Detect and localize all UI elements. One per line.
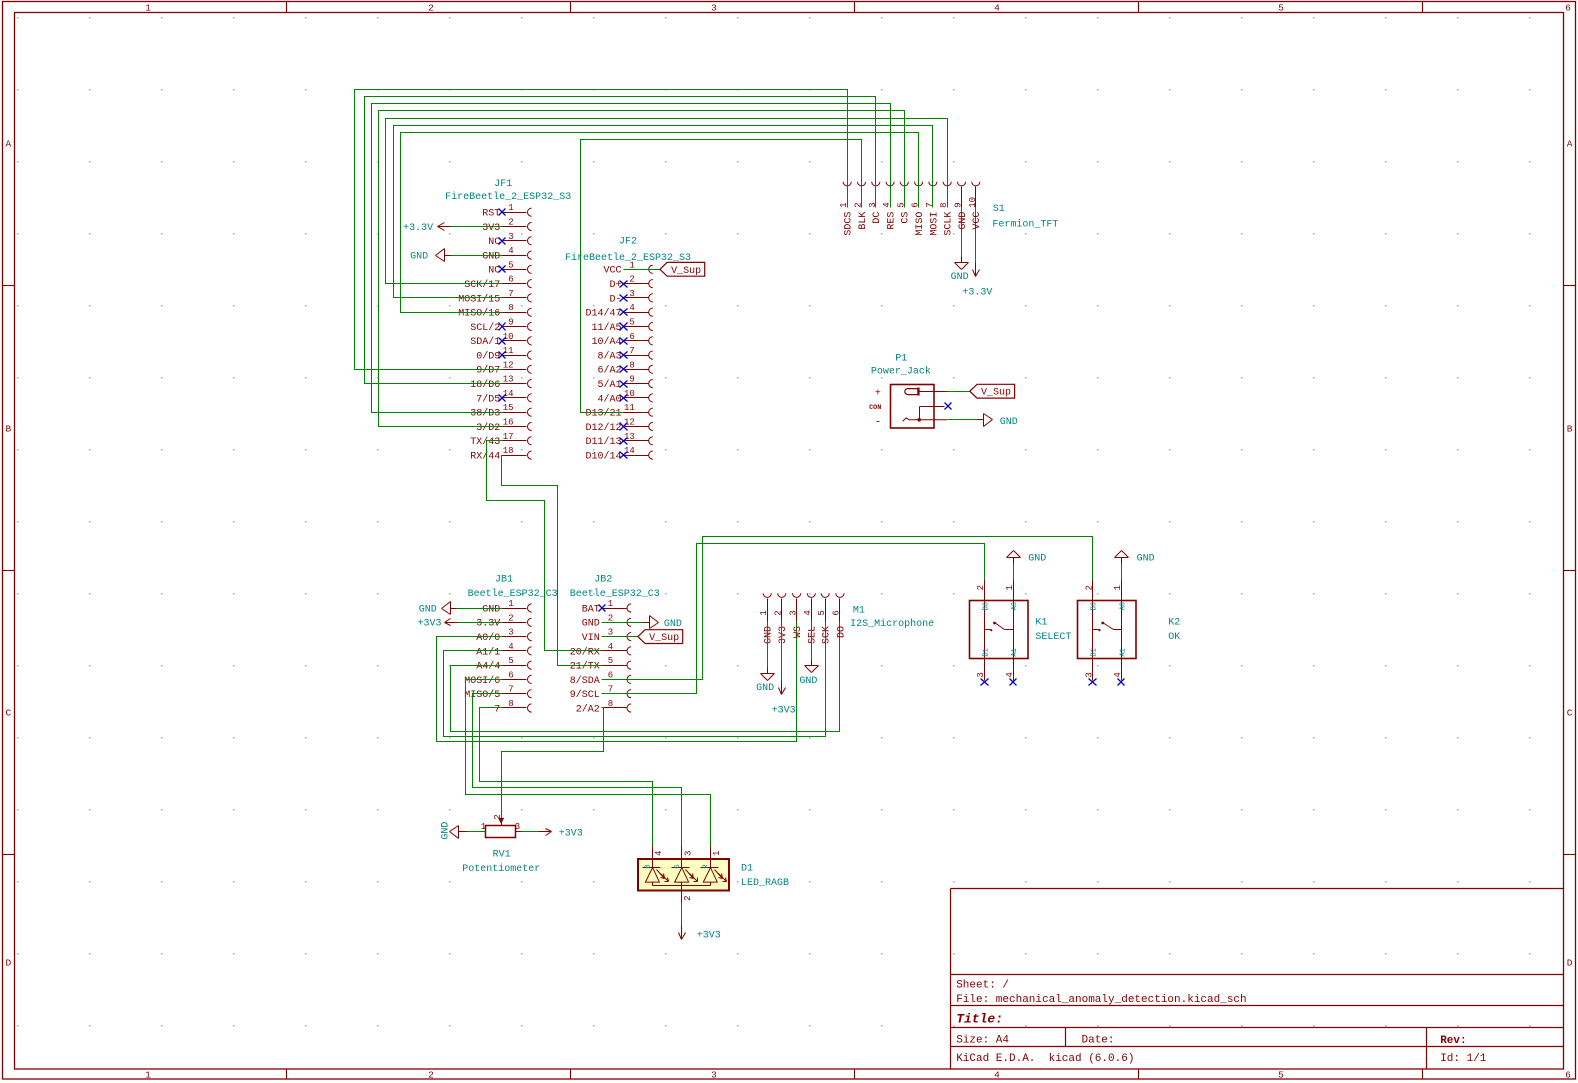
- svg-text:38/D3: 38/D3: [470, 408, 500, 420]
- wire JF1.15 to S1.4: [372, 104, 891, 413]
- svg-text:SCLK: SCLK: [944, 212, 955, 236]
- svg-text:2: 2: [683, 895, 693, 900]
- reference RV1: [493, 850, 511, 861]
- svg-text:OK: OK: [1168, 632, 1180, 643]
- power +3.3V (S1 pin10): [962, 263, 992, 299]
- svg-text:VCC: VCC: [972, 212, 983, 230]
- svg-text:GND: GND: [582, 619, 600, 630]
- svg-text:MISO: MISO: [915, 212, 926, 236]
- svg-text:B: B: [645, 864, 653, 868]
- svg-text:1: 1: [145, 1070, 151, 1081]
- connector S1 Fermion_TFT: [843, 182, 980, 208]
- svg-text:2: 2: [508, 218, 513, 228]
- svg-text:2: 2: [854, 202, 864, 207]
- value Beetle_ESP32_C3 (JB1): [468, 588, 558, 600]
- svg-text:3: 3: [508, 628, 513, 638]
- svg-text:6: 6: [508, 670, 513, 680]
- svg-text:MOSI: MOSI: [929, 212, 940, 236]
- title block: [951, 889, 1564, 1070]
- svg-text:JF2: JF2: [619, 237, 637, 248]
- ground (K1 pin1): [1007, 551, 1047, 565]
- svg-text:10: 10: [624, 389, 635, 399]
- svg-text:2: 2: [428, 1070, 434, 1081]
- reference S1: [993, 204, 1005, 215]
- ground (M1 pin1): [756, 668, 774, 694]
- svg-text:7: 7: [629, 346, 634, 356]
- svg-text:5: 5: [508, 656, 513, 666]
- potentiometer RV1: [459, 814, 522, 837]
- wire JB1.7 to D1.3 (G): [473, 694, 682, 847]
- svg-text:+3.3V: +3.3V: [962, 288, 992, 299]
- svg-text:NC: NC: [488, 266, 500, 277]
- svg-text:C: C: [1567, 707, 1573, 718]
- svg-text:RST: RST: [482, 209, 500, 220]
- svg-text:9: 9: [508, 318, 513, 328]
- svg-text:4: 4: [654, 851, 664, 856]
- svg-text:GND: GND: [756, 683, 774, 694]
- svg-text:3.3V: 3.3V: [476, 619, 500, 630]
- svg-text:D+: D+: [609, 280, 621, 291]
- value Beetle_ESP32_C3 (JB2): [570, 588, 660, 600]
- svg-text:D14/47: D14/47: [585, 308, 621, 320]
- svg-text:4: 4: [1113, 672, 1123, 677]
- svg-text:8/A3: 8/A3: [597, 351, 621, 363]
- wire K2.1 to GND: [1121, 564, 1123, 580]
- ground (JB1 pin1): [419, 602, 457, 616]
- svg-text:3: 3: [711, 3, 717, 14]
- svg-text:P1: P1: [895, 353, 907, 364]
- svg-text:GND: GND: [410, 251, 428, 262]
- wire JF1.12 to S1.1: [355, 90, 848, 370]
- svg-text:5: 5: [508, 260, 513, 270]
- wire JB1.2 to +3V3: [458, 622, 503, 624]
- wire JB2.7 to K1.2: [602, 544, 985, 694]
- no-connect JB2 pin1 BAT: [599, 605, 606, 612]
- pin numbers and names S1: [839, 197, 983, 236]
- ground (JB2 pin2): [643, 616, 682, 631]
- ground (S1 pin9): [951, 257, 969, 284]
- power +3V3 (D1 pin2): [679, 926, 721, 942]
- wire M1.1 to GND: [767, 622, 769, 668]
- svg-text:9: 9: [954, 202, 964, 207]
- svg-text:1: 1: [1005, 585, 1015, 590]
- svg-text:4/A0: 4/A0: [597, 393, 621, 405]
- connector P1 Power_Jack: [869, 385, 947, 429]
- wire RV1.1 to GND: [467, 831, 486, 833]
- wire M1.4 to GND: [811, 622, 813, 660]
- svg-text:3: 3: [976, 672, 986, 677]
- svg-text:D: D: [1567, 957, 1573, 968]
- ground (RV1 pin1): [440, 822, 464, 840]
- svg-text:0/D9: 0/D9: [476, 351, 500, 363]
- wire S1.10 to +3.3V: [975, 208, 977, 263]
- svg-text:B: B: [1567, 423, 1573, 434]
- wire P1.+ to V_Sup: [948, 391, 970, 393]
- svg-text:V_Sup: V_Sup: [981, 388, 1011, 399]
- wire JF1.13 to S1.3: [365, 97, 876, 384]
- svg-text:3V3: 3V3: [778, 626, 789, 644]
- svg-text:+3V3: +3V3: [772, 706, 796, 717]
- ground (M1 pin4): [799, 660, 818, 687]
- svg-text:A0: A0: [1120, 602, 1128, 610]
- svg-text:8: 8: [629, 360, 634, 370]
- wire RV1.3 to +3V3: [522, 831, 539, 833]
- svg-text:8: 8: [608, 699, 613, 709]
- value FireBeetle_2_ESP32_S3 (JF1): [445, 191, 571, 203]
- global label V_Sup (JB2): [638, 630, 683, 644]
- wire K1.1 to GND: [1013, 564, 1015, 580]
- svg-text:5: 5: [896, 202, 906, 207]
- svg-text:MISO/5: MISO/5: [464, 689, 500, 701]
- svg-text:18: 18: [503, 446, 514, 456]
- reference JB1: [495, 575, 513, 586]
- wire JB1.5 to M1.6 (DO): [451, 622, 840, 732]
- svg-text:KiCad E.D.A. kicad (6.0.6): KiCad E.D.A. kicad (6.0.6): [956, 1053, 1134, 1065]
- svg-text:4: 4: [882, 202, 892, 207]
- svg-text:SELECT: SELECT: [1035, 632, 1071, 643]
- ground (P1): [978, 414, 1018, 428]
- svg-text:6: 6: [832, 610, 842, 615]
- svg-text:4: 4: [994, 1070, 1000, 1081]
- svg-text:Fermion_TFT: Fermion_TFT: [992, 218, 1058, 230]
- value Fermion_TFT (S1): [992, 218, 1058, 230]
- no-connect K1 pin4: [1010, 679, 1017, 686]
- svg-text:CS: CS: [901, 212, 912, 224]
- svg-text:D-: D-: [609, 294, 621, 305]
- svg-text:SDCS: SDCS: [844, 212, 855, 236]
- svg-text:D12/12: D12/12: [585, 422, 621, 434]
- svg-text:GND: GND: [482, 604, 500, 615]
- svg-text:SCK/17: SCK/17: [464, 279, 500, 291]
- switch K1 SELECT: [970, 580, 1029, 681]
- reference K2: [1168, 618, 1180, 629]
- svg-text:1: 1: [839, 202, 849, 207]
- svg-text:D1: D1: [741, 863, 753, 874]
- svg-text:MOSI/6: MOSI/6: [464, 675, 500, 687]
- svg-text:A0: A0: [1011, 602, 1019, 610]
- svg-text:RX/44: RX/44: [470, 451, 500, 463]
- svg-text:B1: B1: [983, 648, 991, 656]
- wire JB2.6 to K2.2: [602, 537, 1093, 680]
- svg-text:A1: A1: [1120, 648, 1128, 656]
- svg-text:Potentiometer: Potentiometer: [462, 863, 540, 875]
- svg-text:12: 12: [624, 418, 635, 428]
- svg-text:BAT: BAT: [582, 604, 600, 615]
- svg-text:WS: WS: [793, 626, 804, 638]
- power +3.3V (JF1 pin2): [403, 223, 450, 234]
- svg-text:-: -: [875, 417, 882, 429]
- wire JB1.6 to D1.1 (R): [466, 680, 711, 847]
- svg-text:2: 2: [629, 275, 634, 285]
- svg-text:B: B: [6, 423, 12, 434]
- ground (K2 pin1): [1115, 551, 1155, 565]
- wire JB1.3 to M1.3 (WS): [437, 622, 797, 742]
- svg-text:3V3: 3V3: [482, 223, 500, 234]
- svg-text:5: 5: [1278, 1070, 1284, 1081]
- reference P1: [895, 353, 907, 364]
- svg-text:+3V3: +3V3: [417, 619, 441, 630]
- wire S1.9 to GND: [961, 208, 963, 257]
- value OK (K2): [1168, 632, 1180, 643]
- svg-text:DO: DO: [836, 626, 847, 638]
- svg-text:9/D7: 9/D7: [476, 365, 500, 377]
- svg-text:13: 13: [503, 375, 514, 385]
- svg-text:A: A: [1567, 138, 1573, 149]
- svg-text:File: mechanical_anomaly_detec: File: mechanical_anomaly_detection.kicad…: [956, 994, 1246, 1006]
- svg-text:11: 11: [624, 403, 635, 413]
- svg-text:5: 5: [608, 656, 613, 666]
- svg-text:5: 5: [629, 318, 634, 328]
- svg-text:6: 6: [1565, 1070, 1571, 1081]
- svg-text:D11/13: D11/13: [585, 436, 621, 448]
- svg-text:10: 10: [503, 332, 514, 342]
- svg-text:RV1: RV1: [493, 850, 511, 861]
- svg-text:1: 1: [145, 3, 151, 14]
- svg-text:2: 2: [608, 613, 613, 623]
- wire JB2.8 to RV1.2: [502, 708, 604, 818]
- svg-text:4: 4: [1005, 672, 1015, 677]
- svg-text:K1: K1: [1035, 618, 1047, 629]
- reference M1: [853, 606, 865, 617]
- svg-text:+: +: [875, 388, 881, 399]
- connector JF2 FireBeetle_2_ESP32_S3: [585, 260, 652, 462]
- svg-text:10: 10: [968, 197, 978, 208]
- svg-text:4: 4: [508, 642, 513, 652]
- svg-text:Sheet: /: Sheet: /: [956, 980, 1009, 992]
- svg-text:2: 2: [1084, 585, 1094, 590]
- wire JF1.17 (TX/43) to JB2.4: [487, 441, 602, 651]
- no-connect K2 pin3: [1089, 679, 1097, 686]
- svg-text:5: 5: [817, 610, 827, 615]
- svg-text:D13/21: D13/21: [585, 408, 621, 420]
- svg-text:DC: DC: [872, 212, 883, 224]
- wire JB1.4 to M1.5 (SCK): [444, 622, 826, 737]
- svg-text:8: 8: [508, 303, 513, 313]
- svg-text:LED_RAGB: LED_RAGB: [741, 878, 789, 889]
- svg-text:3: 3: [515, 822, 520, 832]
- svg-text:+3V3: +3V3: [559, 828, 583, 839]
- power +3V3 (M1 pin2): [772, 681, 796, 717]
- svg-text:BLK: BLK: [858, 212, 869, 230]
- svg-text:9: 9: [629, 375, 634, 385]
- wire JF1.7 to S1.7: [394, 126, 933, 298]
- svg-text:SCK: SCK: [822, 626, 833, 644]
- svg-text:7: 7: [508, 685, 513, 695]
- global label V_Sup (JF2): [660, 262, 705, 276]
- wire JF1.8 to S1.6: [401, 133, 919, 313]
- svg-text:I2S_Microphone: I2S_Microphone: [850, 618, 934, 630]
- svg-text:8: 8: [939, 202, 949, 207]
- svg-text:20/RX: 20/RX: [570, 646, 600, 658]
- svg-text:3: 3: [683, 851, 693, 856]
- svg-text:SCL/2: SCL/2: [470, 322, 500, 334]
- svg-text:VCC: VCC: [603, 266, 621, 277]
- svg-text:14: 14: [624, 446, 635, 456]
- svg-text:Rev:: Rev:: [1440, 1035, 1466, 1047]
- svg-text:Id: 1/1: Id: 1/1: [1440, 1053, 1487, 1065]
- svg-text:1: 1: [712, 851, 722, 856]
- svg-text:Power_Jack: Power_Jack: [871, 365, 931, 377]
- svg-text:GND: GND: [764, 626, 775, 644]
- svg-text:JF1: JF1: [494, 179, 512, 190]
- no-connect marks JF2: [620, 281, 628, 459]
- reference D1: [741, 863, 753, 874]
- value I2S_Microphone (M1): [850, 618, 934, 630]
- ground (JF1 pin4): [410, 249, 450, 263]
- svg-text:RES: RES: [887, 212, 898, 230]
- svg-text:GND: GND: [1137, 554, 1155, 565]
- svg-text:GND: GND: [1028, 554, 1046, 565]
- svg-text:FireBeetle_2_ESP32_S3: FireBeetle_2_ESP32_S3: [445, 191, 571, 203]
- svg-text:SEL: SEL: [808, 626, 819, 644]
- svg-text:3: 3: [629, 289, 634, 299]
- svg-text:D: D: [6, 957, 12, 968]
- svg-text:NC: NC: [488, 237, 500, 248]
- svg-text:3/D2: 3/D2: [476, 422, 500, 434]
- svg-text:2: 2: [508, 613, 513, 623]
- svg-text:11: 11: [503, 346, 514, 356]
- wire P1.- to GND: [948, 419, 978, 421]
- svg-text:5/A1: 5/A1: [597, 379, 621, 391]
- wire JF2.11 to S1.2: [581, 140, 862, 413]
- wire JF1.16 to S1.5: [379, 111, 905, 427]
- connector M1 I2S_Microphone: [759, 593, 847, 644]
- reference K1: [1035, 618, 1047, 629]
- svg-text:Beetle_ESP32_C3: Beetle_ESP32_C3: [570, 588, 660, 600]
- wire JB2.3 to V_Sup: [602, 636, 638, 638]
- power +3V3 (RV1 pin3): [539, 828, 583, 839]
- svg-text:GND: GND: [440, 822, 451, 840]
- svg-text:3: 3: [1084, 672, 1094, 677]
- svg-text:4: 4: [629, 303, 634, 313]
- svg-text:1: 1: [481, 822, 486, 832]
- wire JF1.18 (RX/44) to JB2.5: [502, 456, 602, 666]
- svg-text:1: 1: [759, 610, 769, 615]
- connector JB2 Beetle_ESP32_C3: [570, 599, 631, 715]
- no-connect K1 pin3: [981, 679, 989, 686]
- svg-text:1: 1: [1113, 585, 1123, 590]
- led D1 LED_RAGB: [638, 847, 729, 903]
- svg-text:B1: B1: [1091, 648, 1099, 656]
- svg-text:B0: B0: [1091, 602, 1099, 610]
- svg-text:17: 17: [503, 432, 514, 442]
- svg-text:9/SCL: 9/SCL: [570, 689, 600, 701]
- reference JB2: [594, 575, 612, 586]
- svg-text:14: 14: [503, 389, 514, 399]
- svg-text:16: 16: [503, 418, 514, 428]
- svg-text:21/TX: 21/TX: [570, 661, 600, 673]
- svg-text:6: 6: [1565, 3, 1571, 14]
- svg-text:V_Sup: V_Sup: [649, 633, 679, 644]
- reference JF2: [619, 237, 637, 248]
- wire JF1.2 to +3.3V: [451, 226, 503, 228]
- wire D1.2 to +3V3: [681, 903, 683, 926]
- value FireBeetle_2_ESP32_S3 (JF2): [565, 252, 691, 264]
- svg-text:A4/4: A4/4: [476, 661, 500, 673]
- svg-text:8/SDA: 8/SDA: [570, 675, 600, 687]
- svg-text:3: 3: [788, 610, 798, 615]
- svg-text:VIN: VIN: [582, 633, 600, 644]
- svg-text:SDA/1: SDA/1: [470, 336, 500, 348]
- svg-text:4: 4: [608, 642, 613, 652]
- svg-text:3: 3: [711, 1070, 717, 1081]
- svg-text:10/A4: 10/A4: [591, 336, 621, 348]
- connector JF1 FireBeetle_2_ESP32_S3: [458, 203, 531, 462]
- svg-text:V_Sup: V_Sup: [671, 266, 701, 277]
- svg-text:GND: GND: [799, 676, 817, 687]
- svg-text:JB1: JB1: [495, 575, 513, 586]
- svg-text:G: G: [674, 864, 682, 868]
- svg-text:CON: CON: [869, 404, 881, 412]
- svg-text:3: 3: [868, 202, 878, 207]
- value Power_Jack (P1): [871, 365, 931, 377]
- svg-text:2: 2: [428, 3, 434, 14]
- svg-text:7: 7: [508, 289, 513, 299]
- connector JB1 Beetle_ESP32_C3: [464, 599, 531, 715]
- wire JF1.6 to S1.8: [386, 119, 948, 284]
- svg-text:6: 6: [911, 202, 921, 207]
- svg-text:K2: K2: [1168, 618, 1180, 629]
- svg-text:B0: B0: [983, 602, 991, 610]
- svg-text:13: 13: [624, 432, 635, 442]
- svg-text:5: 5: [1278, 3, 1284, 14]
- svg-text:D10/14: D10/14: [585, 451, 621, 463]
- svg-text:15: 15: [503, 403, 514, 413]
- svg-text:GND: GND: [951, 272, 969, 283]
- svg-text:7: 7: [494, 704, 500, 715]
- switch K2 OK: [1078, 580, 1137, 681]
- svg-text:6: 6: [608, 670, 613, 680]
- value LED_RAGB (D1): [741, 878, 789, 889]
- svg-text:C: C: [6, 707, 12, 718]
- svg-text:2: 2: [976, 585, 986, 590]
- svg-text:2: 2: [774, 610, 784, 615]
- svg-text:11/A5: 11/A5: [591, 322, 621, 334]
- svg-text:8: 8: [508, 699, 513, 709]
- svg-text:4: 4: [994, 3, 1000, 14]
- wire JB1.8 to D1.4 (B): [480, 708, 653, 847]
- svg-text:Title:: Title:: [956, 1012, 1003, 1027]
- no-connect marks JF1: [499, 209, 506, 402]
- svg-text:TX/43: TX/43: [470, 436, 500, 448]
- svg-text:M1: M1: [853, 606, 865, 617]
- svg-text:GND: GND: [1000, 417, 1018, 428]
- no-connect P1 middle pin: [945, 403, 952, 410]
- power +3V3 (JB1 pin2): [417, 619, 457, 630]
- svg-text:18/D6: 18/D6: [470, 379, 500, 391]
- svg-text:2/A2: 2/A2: [576, 703, 600, 715]
- value Potentiometer (RV1): [462, 863, 540, 875]
- svg-text:+3V3: +3V3: [697, 930, 721, 941]
- svg-text:1: 1: [508, 599, 513, 609]
- svg-text:GND: GND: [482, 252, 500, 263]
- svg-text:Size: A4: Size: A4: [956, 1035, 1009, 1047]
- svg-text:12: 12: [503, 360, 514, 370]
- svg-text:4: 4: [508, 246, 513, 256]
- wire JB1.1 to GND: [457, 608, 503, 610]
- svg-text:GND: GND: [664, 619, 682, 630]
- svg-text:MOSI/15: MOSI/15: [458, 293, 500, 305]
- svg-text:6: 6: [629, 332, 634, 342]
- svg-text:6/A2: 6/A2: [597, 365, 621, 377]
- svg-text:Date:: Date:: [1082, 1035, 1115, 1047]
- wire JB2.2 to GND: [602, 622, 643, 624]
- wire M1.2 to +3V3: [781, 622, 783, 681]
- wire JF1.4 to GND: [451, 255, 503, 257]
- svg-text:A0/0: A0/0: [476, 632, 500, 644]
- svg-text:+3.3V: +3.3V: [403, 223, 433, 234]
- svg-text:1: 1: [608, 599, 613, 609]
